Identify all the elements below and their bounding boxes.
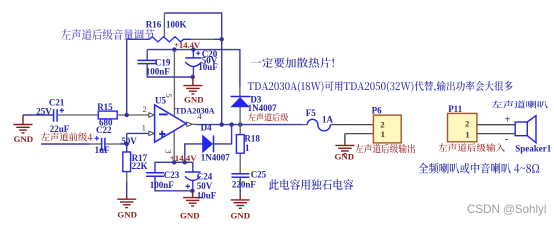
node junction output D4 [229, 122, 233, 126]
op-amp plus sign [159, 131, 165, 137]
net label 左声道后级输入 [438, 143, 505, 151]
ground symbol under C24 [183, 191, 202, 206]
resistor R16 potentiometer zigzag [146, 37, 191, 42]
text 全频喇叭或中音喇叭 4~8Ω [419, 163, 540, 174]
svg-text:1uF: 1uF [95, 145, 111, 155]
node junction rail pin5 [172, 47, 176, 51]
speaker Speaker1 body [515, 122, 527, 136]
svg-text:1: 1 [245, 143, 250, 153]
svg-text:R18: R18 [244, 133, 260, 143]
wire R16 right lead to output column [191, 38, 214, 40]
svg-text:C25: C25 [251, 170, 267, 180]
node junction D4 [183, 160, 187, 164]
text 一定要加散热片! [251, 58, 334, 68]
wire C21 to R15 [57, 114, 98, 116]
connector P11 box [448, 113, 477, 141]
capacitor C24 flat plate [185, 171, 201, 173]
wire pin1 branch vertical [126, 133, 128, 152]
svg-text:TDA2030A: TDA2030A [175, 107, 215, 116]
capacitor C22 plates [101, 138, 103, 151]
capacitor C19 plates [137, 59, 157, 61]
svg-text:2: 2 [465, 118, 470, 128]
pin 4 arrow [187, 122, 192, 127]
node junction pin3 [172, 160, 176, 164]
pin 5 wire [173, 50, 175, 117]
capacitor C21 plates [53, 109, 55, 122]
svg-text:R15: R15 [97, 102, 113, 112]
resistor R15 box [98, 111, 117, 119]
svg-text:GND: GND [335, 151, 355, 161]
pin 3 wire [173, 131, 175, 162]
diode D4 right lead [214, 125, 232, 144]
ground symbol under C20 [183, 77, 202, 94]
svg-text:10uF: 10uF [198, 62, 218, 72]
wire output pin4 to output node [192, 123, 196, 125]
svg-text:C22: C22 [96, 125, 112, 135]
wire P11 pin2 to speaker [477, 124, 515, 126]
svg-text:+14.4V: +14.4V [174, 40, 201, 50]
pin 2 arrow [149, 113, 154, 118]
resistor R17 box [123, 152, 131, 172]
capacitor C19 top lead [146, 50, 148, 60]
diode D3 top lead [239, 87, 241, 97]
node junction R16 right [220, 37, 224, 41]
wire R15 to pin2 [117, 114, 149, 116]
wire P11 pin1 to speaker [477, 133, 515, 135]
diode D3 cathode bar [231, 96, 251, 98]
svg-text:1: 1 [465, 130, 469, 140]
svg-text:50V: 50V [121, 136, 137, 146]
svg-text:CSDN @Sohlyl: CSDN @Sohlyl [467, 203, 546, 216]
wire GND to C21 [23, 114, 54, 116]
wire stub to C22 [90, 143, 102, 145]
svg-text:22K: 22K [132, 161, 148, 171]
capacitor C20 flat plate [185, 57, 201, 59]
svg-text:P11: P11 [448, 104, 463, 114]
svg-text:D4: D4 [201, 122, 212, 132]
svg-text:1N4007: 1N4007 [201, 153, 230, 163]
wire C22 to R17 node [105, 143, 120, 145]
node junction rail C20 [191, 47, 195, 51]
ground symbol input C21 [14, 115, 33, 133]
capacitor C24 bottom lead [192, 180, 194, 191]
svg-text:1N4007: 1N4007 [248, 103, 277, 113]
wire P6 pin1 to ground [345, 133, 374, 135]
svg-text:R16: R16 [146, 20, 162, 30]
svg-text:100nF: 100nF [146, 67, 171, 77]
capacitor C20 plus mark [196, 51, 200, 55]
svg-text:10uF: 10uF [197, 190, 217, 200]
op-amp minus sign [159, 113, 168, 115]
wire top feedback loop from R16 wiper to output column [164, 13, 221, 125]
ground symbol under C25 [231, 194, 250, 208]
net label wire 左声道前级 stub [41, 143, 90, 145]
diode D3 triangle [231, 98, 249, 107]
svg-text:100K: 100K [166, 20, 187, 30]
wire R16 wiper pin [163, 13, 165, 37]
svg-text:1: 1 [381, 129, 385, 139]
node junction C22 R17 [125, 142, 129, 146]
svg-text:+: + [505, 115, 511, 126]
text 此电容用独石电容 [269, 179, 354, 190]
svg-text:2: 2 [143, 105, 147, 114]
wire +14.4V power rail [147, 50, 240, 87]
capacitor C24 plus mark [186, 184, 190, 188]
op-amp U5 triangle [155, 105, 187, 142]
svg-text:22uF: 22uF [50, 124, 70, 134]
resistor R18 box [236, 135, 244, 154]
node junction pin2 feedback [125, 113, 129, 117]
svg-text:+14.4V: +14.4V [170, 153, 197, 163]
text 左声道后级音量调节 [61, 29, 154, 40]
node junction C19 C20 ground [191, 75, 195, 79]
wire pin1 horizontal [127, 132, 150, 134]
svg-text:P6: P6 [372, 105, 382, 115]
wire R18 top lead [239, 125, 241, 135]
wire F5 left stub [302, 124, 307, 126]
svg-text:4: 4 [198, 112, 202, 121]
wire R16 left lead [127, 39, 146, 115]
capacitor C25 plates [231, 173, 249, 175]
fuse F5 right arc [318, 125, 331, 131]
svg-text:1: 1 [142, 124, 146, 133]
capacitor C20 curved plate [185, 62, 201, 66]
node junction C23 C24 ground [190, 189, 194, 193]
wire +14.4V bottom rail [155, 162, 193, 172]
net label 左声道前级4 [41, 132, 92, 141]
diode D3 bottom lead [239, 107, 241, 125]
svg-text:-: - [505, 134, 508, 145]
capacitor C25 bottom lead [239, 177, 241, 194]
svg-text:GND: GND [180, 211, 200, 221]
net label 左声道后级输出 [355, 144, 415, 153]
wire R18 to C25 [239, 153, 241, 174]
svg-text:F5: F5 [306, 108, 316, 118]
svg-text:GND: GND [14, 134, 34, 144]
diode D4 cathode bar [213, 135, 215, 152]
capacitor C20 top lead [192, 50, 194, 58]
svg-text:2: 2 [380, 120, 385, 130]
pin 1 arrow [149, 131, 154, 136]
text TDA2030A(18W)可用TDA2050(32W)代替,输出功率会大很多 [248, 81, 513, 92]
capacitor C19 bottom lead and wire to C20 ground node [147, 64, 193, 77]
svg-text:1A: 1A [322, 115, 334, 125]
svg-text:C24: C24 [197, 171, 213, 181]
node junction output feedback [220, 122, 224, 126]
capacitor C23 bottom lead [155, 176, 192, 191]
svg-text:GND: GND [231, 210, 251, 220]
net label 左声道后级 [248, 113, 288, 121]
fuse F5 left arc [307, 119, 318, 124]
diode D4 left lead [185, 144, 203, 162]
capacitor C24 curved plate [185, 176, 201, 180]
wire junction segment to vertical [214, 38, 222, 40]
diode D4 triangle [203, 135, 213, 152]
svg-text:GND: GND [184, 95, 204, 105]
svg-text:GND: GND [117, 209, 137, 219]
svg-text:25V: 25V [36, 106, 52, 116]
wire F5 to P6 [330, 124, 373, 126]
capacitor C21 plus mark [60, 108, 64, 112]
text 左声道喇叭 [492, 101, 548, 109]
capacitor C20 bottom lead [192, 66, 194, 77]
svg-text:Speaker1: Speaker1 [515, 144, 552, 154]
svg-text:220nF: 220nF [232, 179, 257, 189]
capacitor C23 plates [146, 172, 164, 174]
wire R17 to ground [126, 172, 128, 182]
connector P6 box [373, 115, 401, 143]
svg-text:C23: C23 [164, 170, 180, 180]
capacitor C22 plus mark [95, 136, 99, 140]
speaker Speaker1 horn [527, 116, 536, 143]
ground symbol P6 [335, 142, 354, 154]
ground symbol under R17 [117, 196, 136, 208]
node junction output D3 R18 [238, 122, 242, 126]
svg-text:100nF: 100nF [150, 180, 175, 190]
svg-text:5: 5 [164, 93, 173, 97]
